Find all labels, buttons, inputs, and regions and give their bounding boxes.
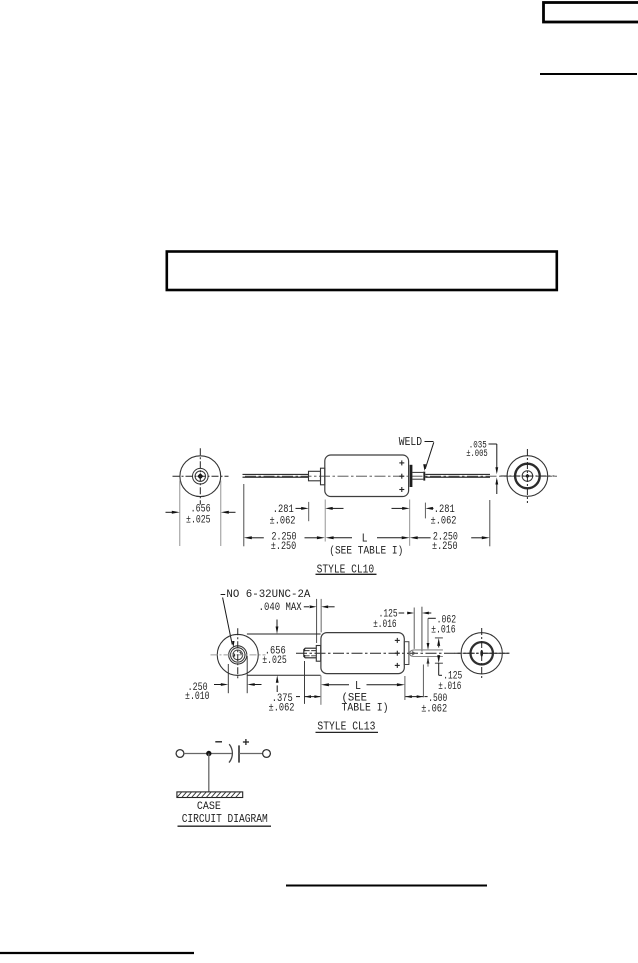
CL13 left end view outer circle xyxy=(217,634,258,675)
CL13 body xyxy=(321,633,404,674)
CL13 dim .375 text xyxy=(269,693,295,715)
svg-text:±.005: ±.005 xyxy=(466,448,488,460)
CL13 body right ext line xyxy=(404,676,406,700)
CL13 dim .040 MAX ext lines xyxy=(317,599,322,643)
svg-text:±.250: ±.250 xyxy=(432,541,458,553)
CL10 dim .281 right ext lines xyxy=(410,500,426,546)
CL13 terminal button xyxy=(410,650,416,657)
CL10 WELD label xyxy=(399,436,422,449)
circuit left terminal xyxy=(176,750,184,758)
CL10 right lead xyxy=(425,474,490,477)
CL10 dim .035 text xyxy=(466,439,488,459)
circuit diagram underline xyxy=(178,825,272,827)
svg-text:TABLE I): TABLE I) xyxy=(342,702,389,714)
svg-text:.281: .281 xyxy=(273,504,294,516)
svg-text:NO 6-32UNC-2A: NO 6-32UNC-2A xyxy=(226,589,310,601)
svg-text:(SEE TABLE I): (SEE TABLE I) xyxy=(329,545,403,557)
CL13 right end view outer circle xyxy=(461,633,502,674)
CL13 polarity + marks xyxy=(395,638,400,668)
wire positive plate to right terminal xyxy=(239,753,262,755)
CL10 dim 2.250 left ext line xyxy=(243,484,245,546)
polarity minus sign xyxy=(215,741,222,743)
bottom center horizontal rule xyxy=(286,885,487,887)
CL13 dim L xyxy=(321,680,405,693)
CL13 dim .250 arrows xyxy=(214,683,262,686)
top right title box xyxy=(544,3,638,23)
svg-text:CIRCUIT DIAGRAM: CIRCUIT DIAGRAM xyxy=(182,813,268,826)
CL13 dim .375 ext line xyxy=(304,661,306,704)
CL13 dim .375 arrows xyxy=(296,695,321,698)
CL13 thread callout label xyxy=(226,589,310,601)
top right horizontal rule xyxy=(540,73,637,75)
svg-text:±.250: ±.250 xyxy=(271,541,297,553)
CL10 dim .656 text xyxy=(186,503,211,526)
svg-text:±.025: ±.025 xyxy=(186,514,211,526)
CL10 bushing xyxy=(309,468,325,485)
CL10 WELD leader xyxy=(423,442,434,472)
CL13 dim .500 text xyxy=(421,693,447,715)
CL10 dim 2.250 right ext line xyxy=(489,500,491,546)
CL13 threaded stud xyxy=(304,648,317,658)
CL13 dim .125 right text xyxy=(438,671,462,693)
svg-text:±.025: ±.025 xyxy=(262,655,287,667)
CL10 dim .035 lines xyxy=(489,444,499,494)
svg-text:±.016: ±.016 xyxy=(373,619,397,631)
CL10 style label xyxy=(316,562,377,576)
CL13 dim .125 right ext lines xyxy=(435,638,443,663)
CL10 left end view lead diamond xyxy=(197,473,203,479)
CL13 stud collar xyxy=(316,646,320,662)
CL10 left end view inner rings xyxy=(193,468,209,484)
CL10 polarity + marks xyxy=(399,460,404,492)
CL13 dim .040 MAX text xyxy=(259,602,302,614)
CL10 dim 2.250 left xyxy=(244,532,325,553)
polarity plus sign xyxy=(243,739,249,745)
CL13 left end view boss rings xyxy=(229,646,247,664)
CL13 style label xyxy=(316,719,379,733)
CL13 left end view thread bore xyxy=(233,650,243,660)
CL10 dim .281 left arrows xyxy=(296,507,344,510)
svg-text:±.062: ±.062 xyxy=(269,703,295,715)
CL13 dim .656 arrows xyxy=(276,620,279,693)
CL13 left end view centerlines xyxy=(211,628,266,680)
CASE label xyxy=(197,801,221,813)
CL10 dim .281 left ext lines xyxy=(309,500,326,542)
CL13 dim .500 arrows xyxy=(405,695,427,698)
CL10 axis centerline xyxy=(245,475,558,477)
svg-text:±.062: ±.062 xyxy=(270,516,296,528)
case ground plate xyxy=(177,792,243,798)
CL13 dim .125 top text xyxy=(373,608,398,631)
CL10 weld bead xyxy=(423,472,425,481)
svg-text:WELD: WELD xyxy=(399,436,422,449)
CL13 axis centerline xyxy=(296,652,510,654)
CL10 right end view thick ring xyxy=(515,464,540,489)
CL10 right end view inner circle xyxy=(522,471,533,482)
svg-text:CASE: CASE xyxy=(197,801,221,813)
CL10 body end cap bar xyxy=(410,465,413,487)
empty notice box xyxy=(167,252,557,291)
CL13 dim .500 ext line xyxy=(422,665,424,698)
CL10 right end view centerlines xyxy=(500,449,554,503)
CL13 dim .125 top arrows xyxy=(399,612,432,615)
svg-text:±.062: ±.062 xyxy=(421,704,447,716)
CL13 dim .250 text xyxy=(185,682,210,703)
svg-text:.040 MAX: .040 MAX xyxy=(259,602,302,614)
svg-text:L: L xyxy=(355,680,361,693)
capacitor positive plate xyxy=(238,745,240,762)
CL10 right end view outer circle xyxy=(507,456,548,497)
CL10 right end view lead diamond xyxy=(525,474,529,478)
CIRCUIT DIAGRAM label xyxy=(182,813,268,826)
svg-text:±.010: ±.010 xyxy=(185,691,210,703)
CL10 dim L see table xyxy=(329,545,403,557)
wire junction to case xyxy=(208,754,210,792)
CL10 dim .281 left text xyxy=(270,504,296,528)
svg-text:STYLE CL13: STYLE CL13 xyxy=(317,719,375,733)
CL13 dim .656 ext lines xyxy=(247,634,321,675)
CL13 right end view centerlines xyxy=(455,628,509,679)
CL13 dim .125 right arrows xyxy=(437,638,440,663)
CL13 dim .062 text xyxy=(431,614,456,636)
circuit right terminal xyxy=(263,750,271,758)
circuit junction node xyxy=(207,751,211,755)
svg-text:±.016: ±.016 xyxy=(438,681,461,693)
CL13 dim .125 top ext lines xyxy=(414,607,422,652)
CL10 left end view centerlines xyxy=(173,448,229,504)
CL10 left lead xyxy=(243,474,309,477)
CL10 dim .656 arrows xyxy=(166,511,236,514)
svg-text:L: L xyxy=(362,532,368,545)
CL10 dim L xyxy=(326,532,410,545)
CL13 right end view button xyxy=(480,650,483,657)
CL10 body xyxy=(325,455,409,497)
svg-text:±.062: ±.062 xyxy=(431,516,457,528)
CL13 dim .040 MAX arrows xyxy=(304,605,335,608)
capacitor negative plate (curved) xyxy=(229,744,232,762)
CL13 right end view thick ring xyxy=(471,642,493,664)
CL13 dim .125 right bracket xyxy=(439,663,442,675)
CL10 terminal stub xyxy=(412,472,423,479)
bottom left horizontal rule xyxy=(0,952,194,954)
CL13 dim .250 ext lines xyxy=(228,656,247,693)
CL10 dim 2.250 right xyxy=(410,532,490,553)
svg-text:.281: .281 xyxy=(434,504,455,516)
wire left terminal to junction xyxy=(184,753,232,755)
CL10 left end view outer circle xyxy=(180,456,221,497)
CL13 terminal step xyxy=(404,642,409,665)
CL13 dim .062 ext lines xyxy=(413,650,443,657)
CL13 dim L see table xyxy=(342,693,389,715)
CL10 dim .281 right arrows xyxy=(392,507,434,510)
CL13 thread callout leader xyxy=(221,595,235,649)
CL13 dim .062 arrows xyxy=(427,643,430,667)
svg-text:±.016: ±.016 xyxy=(431,624,456,636)
CL13 dim .062 bracket xyxy=(428,618,436,646)
CL13 body left ext line xyxy=(320,676,322,705)
CL10 dim .656 ext lines xyxy=(180,481,221,547)
CL13 dim .656 text xyxy=(262,646,287,668)
CL10 dim .281 right text xyxy=(431,504,457,528)
